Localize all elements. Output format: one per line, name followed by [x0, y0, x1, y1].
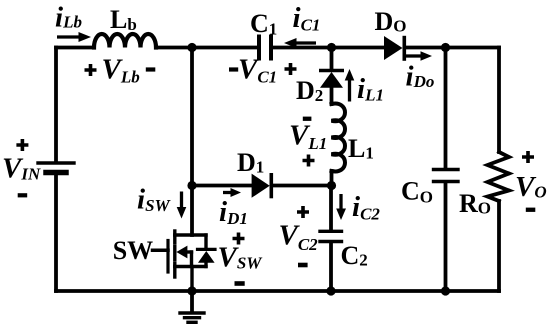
wire D2 to L1 [330, 88, 334, 104]
resistor Ro [488, 152, 510, 201]
svg-text:VO: VO [515, 171, 547, 203]
wire node to C2 [329, 186, 333, 230]
plus sign VIN [16, 139, 28, 151]
arrow iC1 [284, 38, 316, 48]
wire Lb to C1 [156, 46, 257, 50]
ground bar 2 [185, 316, 200, 319]
minus sign VO [526, 208, 536, 212]
node dot top Do/Co [441, 43, 450, 52]
ground bar 1 [180, 311, 204, 314]
svg-text:iC1: iC1 [293, 2, 321, 35]
battery VIN long plate [38, 161, 74, 164]
wire L1 to node [330, 171, 334, 186]
svg-text:L1: L1 [348, 134, 374, 163]
channel segment source [173, 264, 176, 278]
svg-text:SW: SW [113, 236, 153, 265]
capacitor Co [434, 170, 459, 182]
svg-text:D2: D2 [296, 76, 323, 105]
svg-text:RO: RO [459, 189, 491, 218]
diode Do [384, 36, 404, 61]
battery VIN short plate [46, 170, 66, 176]
wire right side lower [497, 201, 501, 291]
wire C1 to Do [273, 46, 384, 50]
diode D1 [252, 173, 272, 198]
body diode triangle [198, 251, 215, 263]
arrow iL1 [345, 69, 355, 102]
mosfet arrow head [176, 246, 187, 259]
node dot top C1/D2 [327, 43, 336, 52]
gate lead dash [153, 249, 169, 253]
node dot D1 right / L1 bottom [327, 181, 336, 190]
minus sign VLb [146, 67, 156, 71]
arrow iDo [405, 51, 432, 60]
svg-text:VIN: VIN [2, 153, 41, 185]
svg-text:VSW: VSW [218, 242, 264, 274]
gate bar [166, 241, 169, 273]
svg-text:C1: C1 [250, 9, 277, 39]
channel segment body [173, 247, 176, 261]
wire branch x192 top (drain) [190, 48, 194, 236]
capacitor C1 [259, 37, 271, 59]
svg-text:VC2: VC2 [279, 220, 319, 255]
svg-text:D1: D1 [237, 148, 264, 177]
svg-text:iLb: iLb [55, 2, 82, 34]
node dot bottom C2 [326, 286, 335, 295]
ground stub [190, 291, 194, 312]
wire left side upper [54, 48, 58, 162]
body-source connector [190, 252, 193, 267]
svg-text:C2: C2 [341, 241, 368, 270]
minus sign VC2 [298, 263, 308, 268]
svg-text:iSW: iSW [137, 184, 172, 216]
plus sign VC2 [297, 206, 309, 218]
svg-text:VLb: VLb [102, 54, 140, 87]
minus sign VSW [235, 281, 245, 286]
wire D1 branch right [272, 184, 331, 188]
node dot bottom ground [187, 286, 196, 295]
plus sign VC1 [285, 63, 297, 75]
diode D2 [319, 71, 344, 88]
wire C2 to bottom [329, 243, 333, 291]
svg-text:iDo: iDo [406, 61, 435, 93]
minus sign VL1 [303, 117, 312, 121]
body diode branch top [204, 235, 207, 249]
arrow iC2 [336, 194, 346, 220]
minus sign VC1 [229, 67, 238, 71]
wire Do to top-right corner [405, 46, 500, 50]
wire top-left segment [56, 46, 94, 50]
node dot top Lb [187, 43, 196, 52]
inductor L1 [332, 104, 346, 172]
svg-text:iL1: iL1 [357, 73, 384, 105]
body diode bar [198, 248, 216, 251]
arrow iLb [57, 32, 91, 42]
body stub [184, 250, 192, 253]
plus sign VSW [233, 233, 245, 245]
minus sign VIN [18, 193, 28, 197]
svg-text:iC2: iC2 [352, 191, 380, 224]
node dot bottom Co [441, 286, 450, 295]
plus sign VO [522, 151, 534, 163]
node dot D1 left [187, 181, 196, 190]
MOSFET SW [153, 231, 216, 291]
drain stub [175, 233, 206, 236]
ground bar 3 [188, 321, 196, 324]
capacitor C2 [320, 231, 342, 241]
wire x331 node to D2 [330, 48, 334, 70]
svg-text:VL1: VL1 [289, 120, 327, 154]
channel segment drain [173, 231, 176, 243]
svg-text:Lb: Lb [110, 5, 137, 34]
wire right side upper [497, 48, 501, 153]
source stub [175, 265, 206, 268]
arrow iSW [177, 192, 187, 219]
inductor Lb [94, 34, 156, 48]
wire bottom rail [56, 289, 499, 293]
body diode branch bottom [204, 263, 207, 267]
wire x445 node to Co [444, 48, 448, 169]
wire Co to bottom [444, 183, 448, 291]
source lead [190, 267, 193, 292]
arrow iD1 [223, 188, 241, 197]
plus sign VL1 [303, 155, 315, 167]
plus sign VLb [85, 64, 97, 76]
wire D1 branch left [192, 184, 252, 188]
svg-text:iD1: iD1 [219, 196, 248, 228]
svg-text:CO: CO [401, 177, 433, 207]
svg-text:DO: DO [375, 7, 407, 36]
wire left side lower [54, 175, 58, 291]
